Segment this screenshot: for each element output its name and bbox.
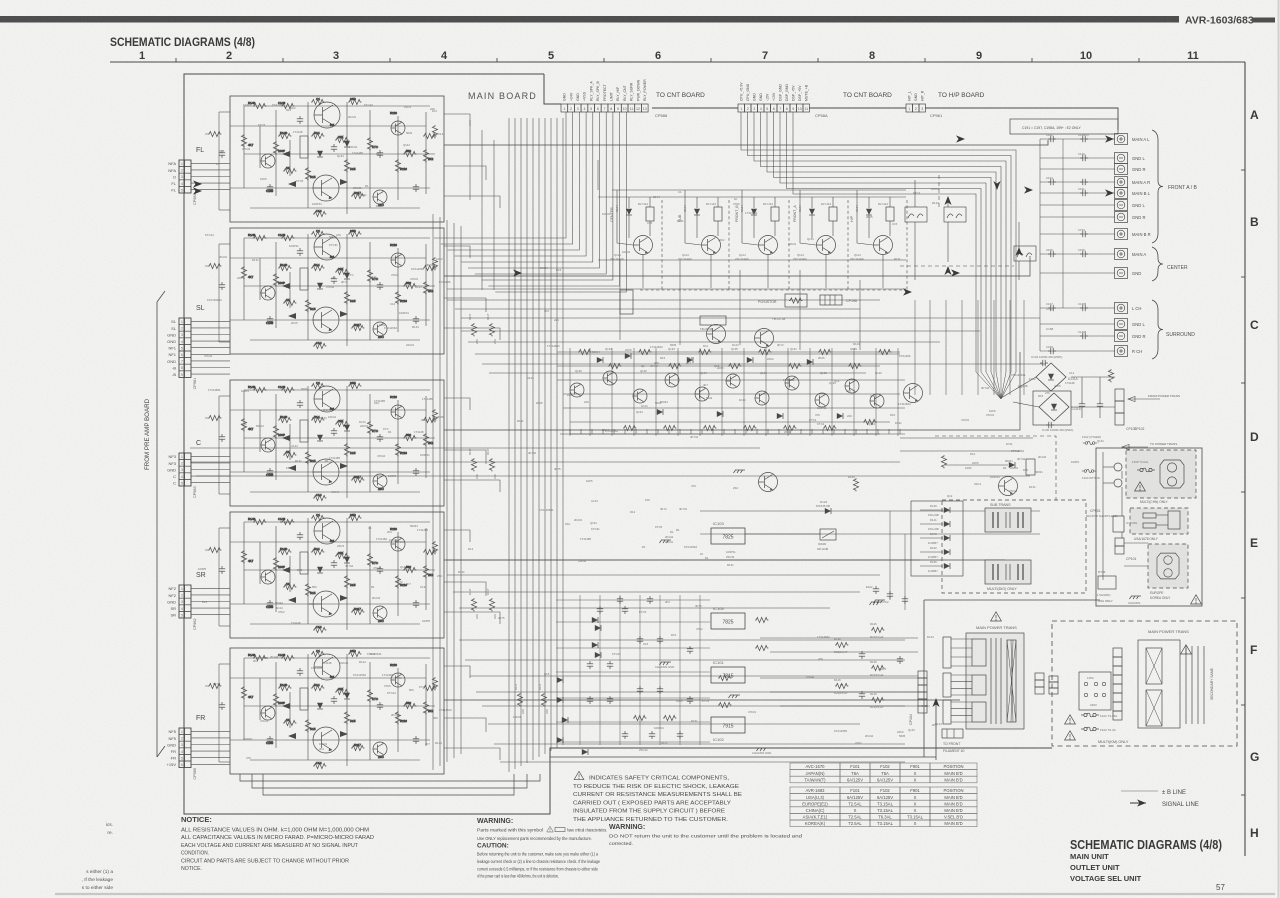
left power area wiring rows	[760, 622, 918, 709]
amp output wires	[444, 140, 1048, 145]
terminal labels	[1132, 137, 1151, 354]
regulator IC103	[711, 521, 745, 544]
wires CP981 to block	[191, 321, 230, 374]
wires CP985 to block	[191, 731, 230, 764]
right ruler ticks	[1241, 170, 1245, 795]
TO FRONT FILAMENT wires	[942, 729, 963, 738]
relay cell CENTER	[610, 190, 654, 261]
E102 cap ground	[873, 586, 879, 594]
IC coil	[1113, 516, 1124, 532]
SUB TRANS second	[985, 560, 1031, 584]
NOTICE block	[181, 815, 374, 872]
wire rails mid D	[700, 510, 1040, 512]
regulator diodes and caps	[557, 596, 769, 723]
wire bus central vertical	[509, 118, 563, 772]
fuse F102	[1081, 727, 1099, 731]
connector CP58A	[738, 104, 810, 112]
protection labels	[575, 347, 882, 375]
relay flow arrows	[944, 196, 951, 205]
main board outline right/top	[652, 107, 738, 109]
protection upper transistors	[707, 325, 726, 344]
WARNING do-not block	[609, 824, 803, 846]
power transformer section frame	[924, 599, 1100, 601]
regulator IC101	[711, 660, 745, 683]
wire bus left vertical	[433, 214, 461, 770]
protection stub comb	[560, 429, 905, 434]
connector CP961	[906, 104, 926, 112]
Q110 transistor	[999, 477, 1018, 496]
relay cell FRONT_B	[735, 190, 779, 261]
terminal input arrows	[1105, 135, 1114, 142]
signal arrow marks	[513, 269, 522, 276]
amp extra right exit wires	[444, 114, 500, 760]
bottom scan streak	[55, 893, 1275, 895]
safety critical block	[573, 771, 742, 822]
Q137 transistor	[904, 384, 923, 403]
protection circuit grid	[557, 348, 905, 436]
mid-left resistor pairs	[468, 313, 549, 714]
connector CP104	[909, 671, 927, 725]
SUB TRANS transformer	[985, 503, 1031, 532]
regulator zone extra caps	[557, 606, 683, 755]
F100 fuse option	[1082, 470, 1096, 473]
C135 C137 verticals	[889, 511, 891, 600]
vertical feeders regulators	[556, 595, 710, 745]
relay cell SUB	[678, 190, 722, 261]
dashed boundary mid	[935, 436, 1056, 500]
CP198 boxes	[700, 316, 726, 325]
FR channel amplifier block	[230, 648, 444, 774]
connector CP982	[179, 585, 191, 618]
connector CP588	[561, 104, 648, 112]
connector CP981	[179, 318, 191, 377]
main board outline	[184, 74, 1052, 814]
connector CP983	[179, 453, 191, 486]
scattered component labels protection	[198, 103, 1104, 760]
bridge rectifier D131A	[1036, 363, 1079, 391]
MULTI(DIG) ONLY box	[942, 500, 1086, 593]
relay cell FRONT_A	[793, 190, 837, 261]
CP58A pin names	[740, 82, 809, 101]
speaker relay contacts 2	[944, 207, 966, 222]
wire bus CP588 fan	[434, 112, 626, 292]
wires CP982 to block	[191, 588, 230, 614]
protection transistors	[570, 371, 884, 408]
wire bus CP58A fan to rectifier	[741, 112, 1016, 399]
FL channel amplifier block	[230, 96, 444, 222]
power trans secondary connectors	[1035, 673, 1058, 694]
junction circles	[1114, 463, 1122, 471]
outlet section wires	[1103, 452, 1148, 580]
right trans connector column	[1113, 648, 1122, 720]
rectifier area horizontals	[900, 437, 1033, 439]
D124 zener	[825, 508, 831, 514]
E131 E132 caps	[1079, 401, 1085, 409]
group braces	[1152, 130, 1163, 359]
voltage sel dashed box	[1052, 621, 1237, 746]
diode ladder box	[911, 501, 963, 576]
MAIN POWER TRANS (right)	[1138, 629, 1214, 728]
extra crossing verticals protection	[915, 300, 1024, 395]
Q121 transistor	[759, 473, 778, 492]
fuse F101	[1081, 713, 1099, 717]
regulator IC104	[711, 606, 745, 629]
connector CP984	[179, 160, 191, 193]
fuse table AVR-1683	[790, 787, 977, 827]
connector CP985	[179, 728, 191, 768]
TO POWER TRANS arrow	[1122, 446, 1148, 448]
up arrow to power trans	[935, 700, 937, 760]
header bar right segment	[1252, 18, 1275, 23]
top ruler line	[110, 61, 1245, 63]
C136 cap	[1046, 422, 1054, 428]
protection diodes	[597, 353, 843, 419]
lower wire row	[550, 756, 936, 758]
left margin cut text	[82, 822, 114, 891]
relay bundle horizontals	[598, 190, 906, 260]
SR channel amplifier block	[230, 512, 444, 638]
RY04 relay	[1098, 576, 1116, 589]
speaker terminals	[1115, 134, 1128, 357]
WARNING parts block	[477, 818, 607, 879]
relay linkage dashes	[900, 265, 1014, 267]
speaker relay contacts 1	[905, 207, 927, 222]
voltage selector	[1079, 672, 1111, 710]
relay section dashed links	[640, 200, 907, 290]
rect wires	[1071, 376, 1115, 378]
terminal cap labels	[1046, 133, 1089, 349]
MAIN POWER TRANS (left)	[943, 612, 1024, 729]
wires CP984 to block	[191, 163, 230, 189]
relay contact wires	[915, 180, 1019, 280]
bridge rectifier D131B	[1033, 391, 1081, 425]
F102 fuse other	[1083, 442, 1097, 445]
outlet europe box	[1148, 544, 1188, 600]
right ruler line	[1244, 62, 1246, 856]
E2 only note	[1010, 119, 1118, 134]
chassis ground right	[1130, 596, 1142, 599]
posistor	[785, 294, 807, 307]
wire risers right of amps	[470, 120, 860, 350]
relay cell drop wires	[598, 160, 883, 288]
B line legend	[1121, 790, 1158, 792]
header bar	[0, 16, 1179, 23]
protection resistors	[578, 349, 891, 430]
FROM POWER TRANS arrow	[1128, 398, 1160, 400]
C channel amplifier block	[230, 380, 444, 506]
wire bundle lower horizontals	[190, 448, 1030, 762]
amp sub-box verticals	[219, 112, 230, 762]
wire bundle mid horizontals	[447, 289, 1046, 373]
terminal feed wires and caps	[1040, 136, 1115, 354]
wires CP983 to block	[191, 456, 230, 482]
FL pin labels	[168, 161, 177, 192]
FR pin labels	[167, 729, 177, 767]
C pin labels	[167, 454, 177, 485]
C134 cap	[1040, 360, 1048, 366]
signal line legend	[1137, 799, 1146, 806]
speaker relay contacts 3	[1014, 246, 1036, 261]
CP101 connector	[1115, 538, 1136, 561]
relay cell H/P	[850, 190, 894, 261]
pre-amp bracket line	[156, 302, 158, 757]
FR block lower nested boxes	[240, 774, 540, 795]
SR pin labels	[167, 586, 177, 617]
page right edge shade	[1278, 0, 1280, 898]
input signal arrows	[193, 180, 202, 187]
ruler numbers 1-11	[139, 50, 1199, 62]
SL pin labels	[167, 319, 177, 377]
IC100 coupler	[820, 529, 836, 540]
outlet usa box	[1130, 508, 1188, 541]
outlet multi box	[1126, 450, 1196, 504]
pre-amp connector area details	[205, 131, 225, 710]
terminal column rails	[1039, 139, 1041, 351]
CP588 pin names	[563, 79, 647, 101]
R139 resistor	[1108, 369, 1113, 382]
SL channel amplifier block	[230, 228, 444, 354]
R150 resistor	[853, 478, 858, 491]
mid small parts	[941, 455, 946, 468]
ground symbols	[660, 470, 886, 751]
outlet section frame	[1096, 448, 1202, 606]
fuse table AVC-1570	[790, 763, 977, 783]
CP196 connector	[820, 295, 842, 305]
regulator IC102	[711, 717, 745, 742]
CP103 connector	[1115, 389, 1136, 431]
ruler tick marks	[176, 58, 1139, 62]
CP961 pin names	[908, 90, 925, 101]
grid letters A-H	[1250, 108, 1259, 840]
